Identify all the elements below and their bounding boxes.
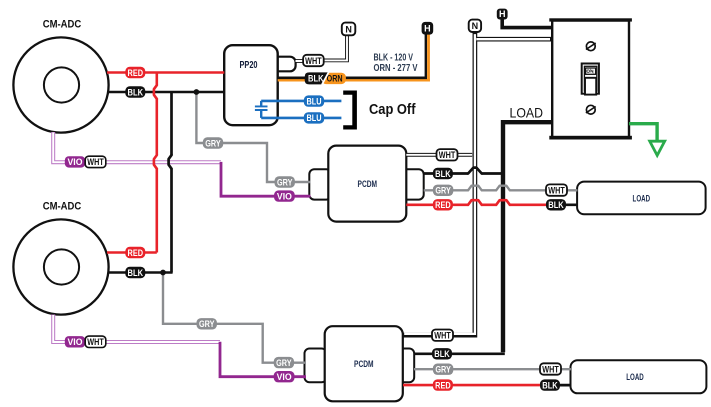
svg-text:RED: RED <box>435 200 451 210</box>
svg-text:GRY: GRY <box>435 186 451 196</box>
label BLK (PP20, slanted) <box>305 72 329 84</box>
switch screw (top) <box>586 42 596 51</box>
svg-text:LOAD: LOAD <box>510 105 544 121</box>
power pack PP20 U1 <box>224 45 295 125</box>
node H1 box <box>422 22 434 35</box>
wire violet thick: to PCDM2 <box>220 342 306 377</box>
wire white double: PP20 to N <box>296 35 348 62</box>
wire black: CM-ADC1 to PP20 <box>108 91 225 94</box>
svg-text:CM-ADC: CM-ADC <box>43 201 82 213</box>
svg-text:WHT: WHT <box>439 150 456 160</box>
svg-text:WHT: WHT <box>548 185 565 195</box>
svg-text:RED: RED <box>128 68 144 78</box>
label BLK (PCDM1 out) <box>433 168 453 179</box>
label BLU 1 <box>304 95 324 106</box>
node N1 box <box>342 23 356 36</box>
dimming module PCDM U3 (bottom) <box>305 326 415 401</box>
wire gray: junction B to PCDM2 input <box>163 273 306 363</box>
label GRY (run 1a) <box>203 137 223 148</box>
label GRY (PCDM2 out) <box>433 364 453 375</box>
svg-text:BLK: BLK <box>128 87 144 97</box>
svg-text:VIO: VIO <box>68 337 83 347</box>
load box 1 (top right) <box>577 182 706 215</box>
svg-text:PCDM: PCDM <box>354 359 374 370</box>
wire violet thick: to PCDM1 <box>221 162 311 196</box>
svg-text:ORN: ORN <box>327 74 343 84</box>
label BLK (bottom) <box>125 267 145 278</box>
wire blue 1 with capacitor <box>261 100 341 103</box>
svg-text:PCDM: PCDM <box>358 179 378 190</box>
label RED (bottom) <box>125 247 145 258</box>
sensor CM-ADC 1 (top) <box>13 19 108 133</box>
label GRY (PCDM2 in) <box>274 357 294 368</box>
wire red vertical riser <box>156 73 159 253</box>
svg-text:RED: RED <box>435 380 451 390</box>
wire switched load: switch to PCDMs <box>503 122 552 352</box>
svg-text:GRY: GRY <box>199 319 215 329</box>
label VIO + WHT (bottom pair) <box>65 336 106 347</box>
svg-text:BLU: BLU <box>307 113 322 123</box>
svg-text:LOAD: LOAD <box>626 372 644 383</box>
label WHT (PCDM1 out) <box>437 149 458 160</box>
switch toggle <box>582 64 599 95</box>
wall switch SW1 plate <box>549 18 632 139</box>
wire blue 2 <box>261 117 341 120</box>
label GRY (run 2a) <box>197 318 217 329</box>
svg-text:RED: RED <box>128 248 144 258</box>
capacitor C1 (cap off) <box>255 101 268 118</box>
label GRY (PCDM1 in) <box>275 176 295 187</box>
svg-text:WHT: WHT <box>87 157 104 167</box>
label BLU 2 <box>304 112 324 123</box>
ground / earth green arrow <box>629 124 665 156</box>
svg-text:VIO: VIO <box>277 372 292 382</box>
label VIO (PCDM1 in) <box>274 190 295 201</box>
svg-text:Cap Off: Cap Off <box>369 102 416 118</box>
label VIO (PCDM2 in) <box>274 371 295 382</box>
svg-text:PP20: PP20 <box>240 59 258 71</box>
switch screw (bottom) <box>586 105 596 114</box>
svg-text:VIO: VIO <box>277 191 292 201</box>
load box 2 (bottom right) <box>571 360 707 393</box>
svg-text:N: N <box>345 24 352 34</box>
svg-text:VIO: VIO <box>68 157 83 167</box>
label BLK (top) <box>125 86 145 97</box>
label GRY (PCDM1 out) <box>433 185 453 196</box>
wire gray: junction A to PCDM1 input <box>196 92 310 182</box>
hop: black over violet pair <box>169 155 172 169</box>
label BLK (LOAD2 in) <box>540 379 560 390</box>
junction dot A <box>194 89 200 95</box>
svg-text:H: H <box>424 24 431 34</box>
label BLK (PCDM2 out) <box>432 348 452 359</box>
svg-text:GRY: GRY <box>277 177 293 187</box>
dimming module PCDM U2 (top) <box>309 146 423 222</box>
label BLK (LOAD1 in) <box>546 199 566 210</box>
wire red: CM-ADC2 stub <box>107 251 157 253</box>
wire white double: PCDM1 to neutral <box>406 153 472 157</box>
wire gray: PCDM2 to LOAD2 <box>414 368 571 370</box>
svg-text:GRY: GRY <box>205 138 221 148</box>
svg-text:WHT: WHT <box>87 337 104 347</box>
svg-text:CM-ADC: CM-ADC <box>43 19 82 31</box>
svg-text:GRY: GRY <box>276 358 292 368</box>
wire black: CM-ADC2 stub <box>108 271 173 274</box>
wire gray: PCDM1 to LOAD1 <box>424 189 578 191</box>
svg-text:BLK: BLK <box>435 169 451 179</box>
svg-text:N: N <box>472 21 479 31</box>
label RED (top) <box>125 67 145 78</box>
node H2 box <box>497 9 508 20</box>
label WHT (LOAD2 in) <box>540 363 561 374</box>
sensor CM-ADC 2 (bottom) <box>13 201 108 315</box>
label WHT (PP20) <box>303 55 324 66</box>
svg-text:ORN - 277 V: ORN - 277 V <box>374 63 418 74</box>
wire red: CM-ADC1 to PP20 <box>107 71 224 73</box>
wire black stub into LOAD1 <box>556 203 578 206</box>
label ORN (PP20) <box>322 73 346 84</box>
svg-text:LOAD: LOAD <box>633 193 651 204</box>
label WHT (LOAD1 in) <box>546 184 567 195</box>
svg-text:BLK: BLK <box>434 349 450 359</box>
wire red: PCDM1 to LOAD1 <box>406 204 556 207</box>
svg-text:BLK: BLK <box>308 74 324 84</box>
svg-text:BLK: BLK <box>542 380 558 390</box>
label RED (PCDM2 out) <box>433 379 453 390</box>
svg-text:WHT: WHT <box>542 364 559 374</box>
wire black stub into LOAD2 <box>552 384 571 387</box>
node N2 box <box>469 20 481 32</box>
hop: red over black <box>154 85 157 99</box>
svg-text:BLK: BLK <box>128 268 144 278</box>
wire black/orange: PP20 to H <box>427 34 430 82</box>
label RED (PCDM1 out) <box>433 199 453 210</box>
hop: red over violet pair <box>154 155 157 169</box>
svg-text:WHT: WHT <box>434 331 451 341</box>
svg-text:H: H <box>499 9 506 19</box>
junction dot B <box>160 270 166 276</box>
svg-text:BLK: BLK <box>548 200 564 210</box>
wire red: PCDM2 to LOAD2 <box>403 384 552 387</box>
wire black: PCDM1 to load vertical <box>424 172 503 175</box>
svg-text:GRY: GRY <box>435 365 451 375</box>
svg-text:BLK - 120 V: BLK - 120 V <box>374 53 414 64</box>
wire violet/white pair: CM-ADC2 <box>53 315 220 343</box>
svg-text:BLU: BLU <box>307 96 322 106</box>
wire violet/white pair: CM-ADC1 <box>53 132 221 162</box>
wire black vertical riser <box>170 92 173 273</box>
label VIO + WHT (top pair) <box>65 156 106 167</box>
svg-text:WHT: WHT <box>305 56 322 66</box>
wire hot thick: H2 to switch <box>502 19 551 28</box>
label WHT (PCDM2 out) <box>432 330 453 341</box>
wire neutral double vertical N2 <box>403 32 475 336</box>
bracket (cap off) <box>343 91 357 130</box>
